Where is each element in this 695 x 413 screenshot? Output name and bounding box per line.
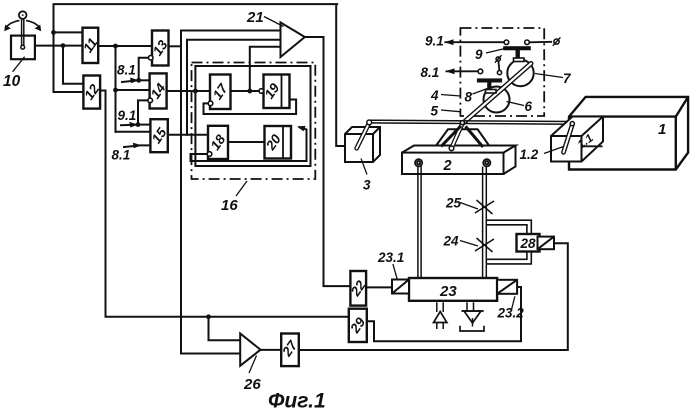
svg-text:23.1: 23.1 — [377, 250, 404, 265]
svg-text:23.2: 23.2 — [497, 306, 525, 321]
svg-text:8.1: 8.1 — [112, 148, 131, 163]
svg-text:25: 25 — [445, 196, 462, 211]
svg-text:28: 28 — [520, 236, 537, 251]
svg-text:4: 4 — [430, 88, 439, 103]
svg-text:9.1: 9.1 — [425, 34, 444, 49]
svg-text:1: 1 — [658, 121, 666, 138]
svg-text:16: 16 — [221, 197, 238, 214]
svg-text:Фиг.1: Фиг.1 — [268, 390, 326, 413]
svg-text:5: 5 — [431, 104, 439, 119]
svg-text:1.2: 1.2 — [520, 147, 539, 162]
svg-text:26: 26 — [243, 376, 261, 393]
svg-text:6: 6 — [525, 99, 533, 114]
svg-text:10: 10 — [3, 73, 21, 90]
svg-text:9: 9 — [475, 47, 483, 62]
svg-text:3: 3 — [363, 178, 371, 193]
svg-text:23: 23 — [439, 283, 457, 300]
svg-text:24: 24 — [443, 234, 460, 249]
svg-text:2: 2 — [443, 158, 452, 174]
svg-text:21: 21 — [246, 9, 264, 26]
svg-text:8.1: 8.1 — [421, 65, 440, 80]
svg-text:8: 8 — [465, 90, 473, 105]
svg-text:8.1: 8.1 — [117, 63, 136, 78]
svg-text:9.1: 9.1 — [118, 108, 137, 123]
